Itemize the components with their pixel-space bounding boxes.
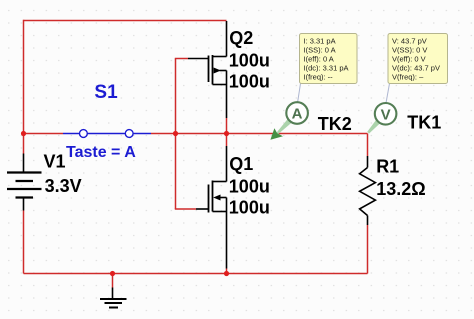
svg-text:I(dc): 3.31 pA: I(dc): 3.31 pA [304,63,349,72]
node junction ground [110,271,115,276]
wire Q1 source to bottom rail [226,269,228,274]
wire ground stem red [112,274,114,288]
wire top rail [24,20,227,22]
svg-text:100u: 100u [229,50,270,70]
wire Q1 drain from middle rail [226,134,228,147]
node junction gate riser [173,131,178,136]
svg-text:V: V [381,106,391,123]
switch S1 [63,130,151,138]
wire gate upper horizontal [175,58,188,60]
node junction Q2-Q1 [224,131,229,136]
svg-text:I(SS): 0 A: I(SS): 0 A [304,45,336,54]
svg-text:Q2: Q2 [229,28,253,48]
svg-text:R1: R1 [376,157,399,177]
probe A circle [286,102,308,124]
svg-text:13.2Ω: 13.2Ω [376,179,425,199]
wire gate riser vertical [175,59,177,210]
svg-text:100u: 100u [229,71,270,91]
svg-text:V(eff): 0 V: V(eff): 0 V [392,54,426,63]
resistor R1 [360,156,376,225]
transistor Q1 body arrow [213,195,220,201]
svg-text:I(eff): 0 A: I(eff): 0 A [304,54,334,63]
probe V attach shaft [367,119,380,133]
svg-text:S1: S1 [94,82,118,103]
wire switch rail right [151,133,368,135]
probe leader line TK1 [386,84,390,104]
svg-text:V(dc): 43.7 pV: V(dc): 43.7 pV [392,63,440,72]
svg-text:V(SS): 0 V: V(SS): 0 V [392,45,427,54]
wire Q2 source to middle rail [226,118,228,134]
battery V1 [7,154,42,211]
transistor Q2 [188,21,227,118]
svg-text:100u: 100u [229,198,270,218]
transistor Q1 [196,146,227,269]
svg-text:TK1: TK1 [407,113,441,133]
wire bottom rail [24,273,368,275]
probe A arrowhead [270,128,283,140]
svg-text:3.3V: 3.3V [45,176,82,196]
probe infobox TK2 [300,34,358,84]
wire left rail lower [23,211,25,274]
probe leader line TK2 [298,84,301,103]
svg-text:V: 43.7 pV: V: 43.7 pV [392,36,427,45]
svg-text:TK2: TK2 [318,114,352,134]
wire right riser lower [367,225,369,274]
wire right riser upper [367,134,369,157]
wire switch rail left [24,133,64,135]
node junction Q1 source bottom [224,271,229,276]
wire left rail upper [23,20,25,154]
svg-text:A: A [292,106,303,123]
probe V circle [375,103,397,125]
svg-text:I: 3.31 pA: I: 3.31 pA [304,36,336,45]
svg-text:V(freq): –: V(freq): – [392,72,424,81]
wire gate lower horizontal [175,208,196,210]
ground [100,288,127,308]
probe infobox TK1 [388,34,448,84]
svg-text:100u: 100u [229,177,270,197]
node junction left [21,131,26,136]
svg-text:Q1: Q1 [229,154,253,174]
svg-text:V1: V1 [44,151,66,171]
svg-text:I(freq): --: I(freq): -- [304,72,334,81]
probe A arrow shaft [276,119,292,135]
svg-text:Taste = A: Taste = A [66,144,136,161]
transistor Q2 body arrow [214,68,221,74]
